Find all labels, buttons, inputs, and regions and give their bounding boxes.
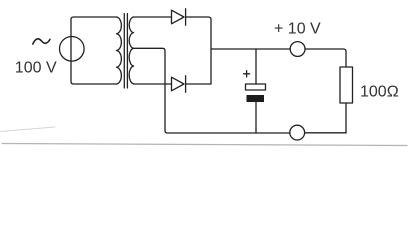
wire bottom rail right: [305, 132, 346, 134]
wire terminal to resistor: [305, 49, 346, 67]
diode D2: [172, 77, 185, 91]
transformer core: [123, 14, 125, 89]
wire top rail to right vertical: [186, 17, 211, 84]
terminal 0V bottom: [290, 125, 305, 140]
AC source V1: [60, 37, 85, 62]
wire secondary bottom rail: [134, 83, 172, 85]
capacitor C1 lead bottom: [255, 102, 257, 133]
svg-text:100Ω: 100Ω: [360, 84, 399, 101]
label ~ tilde: [33, 39, 50, 44]
capacitor C1 top plate: [246, 84, 266, 90]
capacitor C1 bottom plate: [247, 95, 265, 102]
wire center tap: [134, 48, 290, 133]
resistor R1 lead bottom: [345, 103, 347, 133]
wire output rail: [211, 48, 290, 50]
svg-text:100 V: 100 V: [15, 60, 57, 77]
terminal +10V: [290, 42, 305, 57]
transformer T1 secondary coil: [129, 17, 133, 84]
wire primary loop: [71, 17, 117, 84]
svg-text:+ 10 V: + 10 V: [274, 21, 321, 38]
capacitor C1 lead top: [255, 49, 257, 84]
wire bottom diode to right vertical: [186, 83, 211, 85]
transformer T1 primary coil: [117, 17, 122, 84]
wire secondary top rail: [134, 16, 172, 18]
diode D1: [172, 10, 185, 24]
scan artifact smudge bottom-left: [0, 127, 55, 132]
resistor R1: [340, 67, 353, 103]
label + polarity: [244, 71, 250, 77]
scan artifact line bottom: [2, 144, 407, 146]
